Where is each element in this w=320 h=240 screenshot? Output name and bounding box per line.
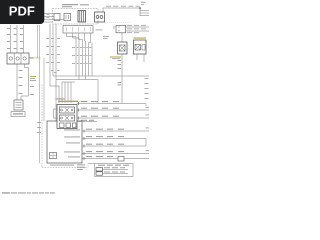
wires into connector J1	[11, 25, 24, 53]
wire color labels (right runs)	[81, 101, 124, 157]
connector pins at wire starts	[79, 102, 85, 160]
connector J3 and wires W3, W4	[114, 25, 149, 33]
fuse/relay block U1 (top-center, dashed enclosure)	[53, 9, 105, 25]
lamp L1	[110, 42, 127, 59]
caption text (bottom-left)	[2, 192, 55, 195]
wire J1 to battery B1	[16, 64, 18, 100]
connector J1	[7, 53, 29, 64]
center-left vertical wires to relay K1	[50, 24, 75, 121]
wire color labels (J1 wires)	[7, 28, 23, 49]
wire color labels (L1 wire)	[118, 60, 122, 85]
lamp L2	[134, 38, 147, 63]
wire color labels (center wires)	[46, 38, 91, 64]
wire color labels (center-left wires)	[51, 70, 60, 73]
svg-text:PDF: PDF	[9, 4, 35, 19]
horizontal wire runs to right edge	[77, 104, 149, 159]
junction node on wire W1	[139, 7, 141, 9]
battery B1 with name plate	[11, 100, 25, 117]
wire run W1 (top-right)	[101, 8, 150, 16]
connector strip J2 below U1	[63, 26, 109, 40]
control module M1	[47, 121, 82, 163]
wire W1 color labels	[106, 5, 140, 8]
wires into U1 from left	[37, 14, 64, 23]
wire from lamp L1 down	[121, 54, 123, 104]
page reference labels (right margin)	[145, 78, 150, 151]
long vertical wires (left bus)	[38, 25, 45, 163]
wire end hook	[145, 104, 147, 107]
label for U1	[62, 4, 89, 7]
highlighted callout from J1	[30, 57, 34, 58]
labels left of module M1	[37, 122, 41, 133]
wires from J2 down to buses	[67, 33, 93, 80]
wire color labels (elbow wire)	[30, 86, 34, 95]
dashed enclosure (harness boundary)	[42, 85, 88, 168]
highlighted inline label on elbow wire	[30, 76, 36, 81]
dashed wire W2	[107, 22, 131, 24]
PDF badge	[0, 0, 44, 24]
relay K1 (with highlighted label)	[54, 99, 89, 129]
node reference label	[141, 2, 146, 5]
junction block J4 (bottom-right)	[77, 164, 133, 177]
connector J5 at wire end	[118, 157, 124, 162]
wire color labels (U1 input wires)	[47, 14, 50, 18]
wire from J3 down to lamp L1	[121, 33, 123, 42]
bus wires B+ and B-	[53, 76, 149, 104]
wire color labels (battery feed wire)	[19, 70, 23, 94]
wire with elbow and highlighted label	[21, 64, 29, 100]
